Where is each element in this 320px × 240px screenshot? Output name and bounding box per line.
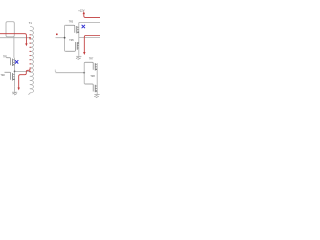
wire gate bus	[64, 25, 67, 51]
svg-text:TR5: TR5	[69, 21, 74, 23]
IC box U1	[6, 22, 14, 37]
wire	[13, 37, 15, 58]
transistor TR2	[5, 72, 15, 80]
node junction	[83, 72, 85, 74]
node junction	[64, 37, 66, 39]
current arrow	[19, 69, 30, 88]
winding highlight dots	[30, 34, 31, 68]
transistor TR6	[65, 42, 78, 51]
blue X marker	[15, 60, 18, 63]
node junction	[14, 71, 16, 73]
wire	[56, 37, 65, 39]
node tap A	[29, 37, 31, 39]
svg-text:TR1: TR1	[3, 57, 8, 59]
node tap B	[29, 71, 31, 73]
svg-text:TR6: TR6	[69, 40, 74, 42]
transistor TR8	[85, 84, 97, 92]
svg-text:T1: T1	[29, 21, 33, 25]
wire	[79, 22, 100, 25]
winding return crossings	[30, 30, 31, 89]
blue X marker	[82, 25, 85, 28]
svg-text:TR2: TR2	[1, 75, 6, 77]
wire	[0, 37, 30, 39]
ground	[12, 86, 17, 95]
wire	[56, 72, 85, 74]
wire	[14, 58, 16, 86]
current arrow	[0, 34, 26, 44]
ground	[76, 56, 81, 59]
wire	[15, 70, 30, 72]
transistor TR7	[85, 62, 97, 70]
svg-text:TR7: TR7	[89, 59, 94, 61]
transformer T1 winding	[29, 27, 34, 95]
transistor TR5	[65, 25, 78, 33]
ground	[94, 93, 99, 98]
svg-text:TR8: TR8	[90, 76, 95, 78]
wire output	[79, 37, 100, 39]
wire	[96, 63, 98, 92]
current arrow	[84, 14, 100, 18]
node marker	[56, 34, 58, 36]
transistor TR1	[7, 58, 15, 66]
current arrow	[84, 36, 100, 53]
wire gate bus	[83, 62, 86, 84]
svg-text:L: L	[55, 69, 57, 73]
wire	[78, 25, 80, 56]
